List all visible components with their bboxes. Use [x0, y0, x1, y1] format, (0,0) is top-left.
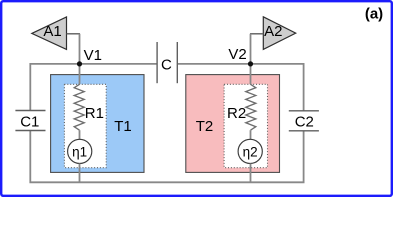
- capacitor C1 (left branch): [15, 111, 45, 131]
- wire: top bus from C to node V2 and right rail: [177, 64, 303, 111]
- amplifier A1: [32, 17, 67, 49]
- svg-text:η1: η1: [72, 144, 87, 159]
- svg-text:C2: C2: [295, 114, 314, 131]
- svg-text:T2: T2: [196, 118, 214, 135]
- node V2: [228, 46, 253, 67]
- svg-text:C: C: [161, 56, 172, 73]
- svg-text:V2: V2: [228, 46, 246, 63]
- dashed enclosure around R1 and eta1: [64, 84, 106, 167]
- noise source eta2: [238, 139, 262, 163]
- resistor R2: [227, 84, 256, 130]
- reservoir box T2: [186, 75, 280, 173]
- amplifier A2: [263, 17, 295, 50]
- svg-text:A2: A2: [264, 23, 282, 40]
- svg-text:(a): (a): [365, 6, 383, 23]
- wire: eta2 to bottom bus: [250, 164, 252, 183]
- svg-text:A1: A1: [43, 23, 61, 40]
- wire: left rail and top bus to node V1 and C: [30, 64, 157, 111]
- wire: A1 output horizontal segment: [67, 33, 81, 35]
- wire: A1 output drop to node V1: [79, 34, 81, 64]
- wire: A2 input horizontal segment: [250, 33, 263, 35]
- wire: R1 to noise source eta1: [79, 130, 81, 139]
- node V1: [77, 47, 102, 67]
- resistor R1: [74, 84, 104, 130]
- wire: V1 branch down into T1: [79, 64, 81, 84]
- reservoir box T1: [51, 75, 144, 173]
- svg-text:R2: R2: [227, 105, 246, 122]
- svg-text:T1: T1: [114, 118, 132, 135]
- wire: A2 input drop from node V2: [250, 34, 252, 64]
- capacitor C (coupling capacitor between V1 and V2): [157, 42, 177, 83]
- svg-text:V1: V1: [84, 47, 102, 64]
- svg-text:C1: C1: [20, 114, 39, 131]
- wire: R2 to noise source eta2: [250, 130, 252, 139]
- wire: eta1 to bottom bus: [79, 164, 81, 183]
- svg-text:R1: R1: [85, 105, 104, 122]
- wire: bottom return bus: [30, 131, 303, 183]
- svg-text:η2: η2: [243, 144, 258, 159]
- capacitor C2 (right branch): [289, 111, 319, 131]
- wire: V2 branch down into T2: [250, 64, 252, 84]
- dashed enclosure around R2 and eta2: [224, 84, 267, 167]
- noise source eta1: [68, 139, 92, 163]
